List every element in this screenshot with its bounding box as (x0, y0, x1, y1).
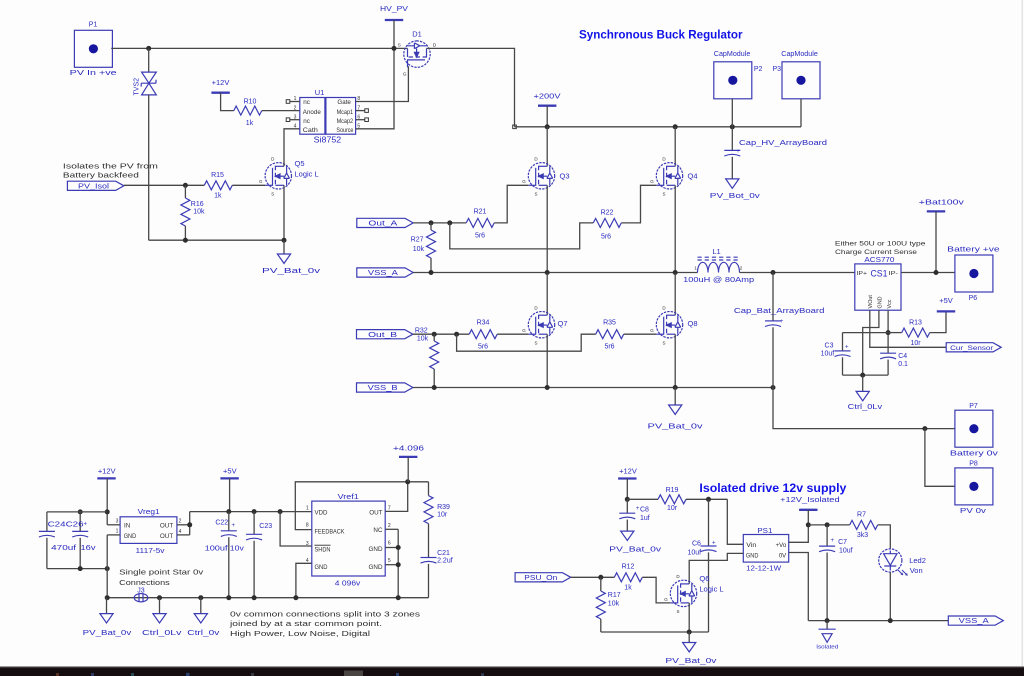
svg-text:3: 3 (116, 519, 119, 525)
pin 7 mcap1 U1 (356, 105, 369, 112)
svg-text:NC: NC (373, 527, 383, 534)
svg-text:S: S (662, 340, 665, 345)
node R32 top (432, 332, 437, 337)
svg-text:CapModule: CapModule (781, 51, 818, 58)
capacitor C22 (205, 512, 245, 598)
svg-text:1uf: 1uf (640, 515, 650, 522)
transistor Q4 (650, 157, 697, 197)
node R27 top (429, 220, 434, 225)
svg-text:+Bat100v: +Bat100v (919, 198, 964, 207)
node sensor ground (860, 373, 865, 378)
connector P1 (70, 21, 117, 77)
power +12V_Isolated (780, 497, 840, 510)
wire VSS_B (413, 387, 773, 389)
pin 5 source U1 (357, 124, 360, 130)
svg-text:VSS_A: VSS_A (959, 618, 989, 625)
svg-text:Vref1: Vref1 (338, 492, 359, 501)
svg-text:0.1: 0.1 (898, 361, 908, 368)
net label PSU_On (515, 573, 571, 582)
svg-text:Vreg1: Vreg1 (138, 507, 160, 516)
svg-text:P3: P3 (773, 66, 782, 73)
inductor L1 (683, 247, 754, 284)
svg-text:ViOut: ViOut (868, 295, 874, 309)
connector P6 Battery +ve (947, 246, 1000, 302)
svg-text:+12V_Isolated: +12V_Isolated (780, 497, 840, 504)
wire P3 drop (800, 99, 802, 127)
svg-text:10uf: 10uf (687, 550, 701, 557)
capacitor Cap_Bat_ArrayBoard (734, 273, 825, 388)
node +200V rail caps (730, 124, 735, 129)
transistor Q3 (522, 157, 569, 197)
svg-text:R27: R27 (411, 236, 424, 243)
svg-text:R17: R17 (608, 592, 621, 599)
svg-text:5r6: 5r6 (604, 343, 614, 350)
diode Led2 (879, 549, 926, 576)
svg-text:Mcap2: Mcap2 (337, 118, 354, 125)
power +12V bottom left (97, 466, 115, 478)
svg-text:OUT: OUT (160, 522, 173, 529)
svg-text:R13: R13 (909, 320, 922, 327)
svg-text:10uf: 10uf (839, 547, 853, 554)
svg-text:S: S (534, 340, 537, 345)
connector P7 Battery 0v (950, 403, 999, 458)
svg-text:2.2uf: 2.2uf (437, 558, 453, 565)
svg-text:2: 2 (294, 105, 297, 111)
svg-text:10r: 10r (437, 511, 448, 518)
svg-text:Isolated drive 12v supply: Isolated drive 12v supply (699, 483, 847, 495)
svg-text:CS1: CS1 (871, 269, 888, 279)
svg-text:P8: P8 (969, 460, 978, 467)
svg-text:+5V: +5V (939, 296, 953, 305)
svg-text:+: + (712, 541, 716, 547)
svg-text:+12V: +12V (212, 78, 230, 87)
node vref out (405, 479, 410, 484)
svg-text:PV In +ve: PV In +ve (70, 70, 117, 77)
node R16 top junction (183, 183, 188, 188)
wire gnd vertical to star (106, 535, 108, 598)
wire R13 to +5V (930, 311, 946, 332)
power +200V (534, 92, 561, 106)
wire CS1 to P6 (901, 272, 955, 274)
wire CS1 gnd pin (863, 310, 879, 375)
resistor R16 (181, 185, 205, 240)
svg-text:GND: GND (877, 296, 883, 308)
svg-text:+: + (736, 149, 740, 155)
svg-text:OUT: OUT (160, 533, 173, 540)
node star main (105, 595, 110, 600)
ground PV_Bat_0v under Q8 (648, 388, 704, 431)
wire Out_B to R34 (413, 333, 469, 335)
node VSS_B R32 (432, 385, 437, 390)
svg-text:16v: 16v (81, 545, 97, 552)
node star ctrl0lv (157, 595, 162, 600)
power +5V left (220, 466, 238, 478)
pin 3 nc U1 (286, 114, 300, 121)
node vo node (806, 522, 811, 527)
voltage regulator Vreg1 (116, 507, 182, 555)
svg-text:G: G (650, 328, 654, 333)
resistor R13 (888, 320, 930, 347)
wire feedback loop (295, 482, 428, 530)
wire ps1 gnd to q6 drain (689, 553, 743, 584)
wire Q4 source (674, 185, 676, 272)
svg-text:Q6: Q6 (699, 574, 709, 583)
svg-text:+4.096: +4.096 (393, 443, 424, 452)
wire +12V drop br (626, 479, 628, 500)
wire R19 out (686, 498, 727, 500)
svg-text:Isolated: Isolated (816, 645, 838, 651)
svg-text:HV_PV: HV_PV (380, 4, 408, 13)
svg-text:C22: C22 (215, 519, 228, 526)
comment text isolates (63, 164, 158, 180)
transistor Q7 (522, 306, 567, 346)
wire led to vss (889, 572, 891, 621)
svg-text:10k: 10k (608, 600, 620, 607)
svg-text:GND: GND (315, 564, 328, 571)
op-amp U1 Si8752 isolated gate driver (300, 88, 356, 145)
svg-text:G: G (403, 72, 407, 77)
svg-text:+Vo: +Vo (776, 543, 787, 549)
wire CS1 vcc pin (887, 310, 889, 353)
wire lower loop B to R35 (457, 334, 596, 351)
svg-text:+200V: +200V (534, 92, 561, 101)
wire PSU_On to R12 (571, 576, 615, 578)
capacitor C26 (72, 512, 88, 569)
svg-text:Ctrl_0v: Ctrl_0v (187, 630, 220, 637)
capacitor C4 (880, 353, 908, 375)
svg-text:G: G (522, 328, 526, 333)
node TVS junction (146, 46, 151, 51)
svg-text:5r6: 5r6 (478, 343, 488, 350)
svg-text:Single point Star 0v: Single point Star 0v (119, 567, 203, 576)
node VSS_B Q7 (545, 385, 550, 390)
svg-text:Von: Von (910, 566, 923, 575)
svg-text:R34: R34 (477, 320, 490, 327)
svg-text:470uf: 470uf (51, 545, 76, 552)
TVS diode TVS2 (134, 72, 157, 95)
ground Ctrl_0Lv star (142, 598, 182, 637)
net label Cur_Sensor (946, 343, 1001, 352)
capacitor C7 (819, 525, 853, 621)
wire TVS drop (148, 48, 150, 72)
node top rail C26 (78, 509, 83, 514)
svg-text:Ctrl_0Lv: Ctrl_0Lv (848, 404, 883, 411)
svg-text:Charge Current Sense: Charge Current Sense (835, 249, 917, 256)
wire cap branch to P7 line (773, 388, 955, 429)
svg-text:TVS2: TVS2 (134, 78, 141, 96)
svg-text:Logic L: Logic L (295, 169, 319, 178)
wire out pin to top (385, 482, 408, 512)
svg-text:Cap_HV_ArrayBoard: Cap_HV_ArrayBoard (739, 140, 827, 147)
svg-text:5r6: 5r6 (475, 232, 485, 239)
node VSS_A R27 (429, 270, 434, 275)
ground PV_Bat_0v q6 (665, 632, 717, 665)
svg-text:G: G (664, 597, 668, 602)
svg-text:Out_A: Out_A (368, 221, 397, 228)
node VSS_B cap branch (771, 385, 776, 390)
wire L1 to CS1 (740, 272, 855, 274)
ground PV_Bat_0v under Q5 (262, 240, 321, 275)
resistor R17 (596, 577, 620, 632)
svg-text:2: 2 (388, 523, 391, 529)
power +4.096 (393, 443, 424, 457)
wire Q6 source (688, 603, 690, 632)
svg-text:S: S (662, 191, 665, 196)
svg-text:IN: IN (124, 522, 131, 529)
power +5V right (937, 296, 955, 311)
wire +4.096 drop (407, 457, 409, 482)
svg-text:R35: R35 (603, 320, 616, 327)
wire TVS2 bottom to 0v rail (148, 95, 150, 240)
wire ps1 0v (789, 553, 809, 621)
svg-text:Synchronous Buck Regulator: Synchronous Buck Regulator (579, 30, 743, 42)
svg-text:10k: 10k (417, 335, 429, 342)
svg-text:Out_B: Out_B (368, 332, 397, 339)
svg-text:Si8752: Si8752 (314, 136, 342, 145)
svg-text:100uH @ 80Amp: 100uH @ 80Amp (683, 277, 754, 284)
resistor R12 (614, 563, 642, 591)
node vreg out (187, 522, 192, 527)
svg-text:Cath: Cath (303, 127, 319, 134)
svg-text:PV_Bat_0v: PV_Bat_0v (83, 630, 132, 637)
svg-text:U1: U1 (315, 88, 325, 97)
wire bottom cap rail (47, 568, 107, 570)
svg-text:Cur_Sensor: Cur_Sensor (950, 345, 994, 352)
svg-text:Vin: Vin (746, 543, 756, 549)
svg-text:1: 1 (694, 265, 697, 270)
node 5v rail shdn (278, 509, 283, 514)
wire shdn loop (280, 512, 312, 546)
svg-text:VDD: VDD (315, 509, 328, 516)
svg-text:C21: C21 (437, 550, 450, 557)
ground Ctrl_0Lv sensor (848, 375, 883, 411)
svg-text:2: 2 (179, 519, 182, 525)
svg-text:VSS_A: VSS_A (368, 270, 398, 277)
net label Out_B (357, 330, 413, 339)
svg-text:R15: R15 (211, 172, 224, 179)
net label VSS_B (357, 383, 413, 392)
svg-text:0v common connections split in: 0v common connections split into 3 zones (230, 610, 420, 619)
svg-text:Mcap1: Mcap1 (337, 109, 354, 116)
svg-text:GND: GND (369, 546, 383, 553)
svg-text:10r: 10r (667, 505, 678, 512)
pin 2 anode U1 (294, 105, 297, 111)
pin 6 mcap2 U1 (356, 114, 369, 121)
right edge line (1022, 0, 1023, 666)
svg-text:Cap_Bat_ArrayBoard: Cap_Bat_ArrayBoard (734, 308, 825, 315)
node +200V rail Q4 (673, 124, 678, 129)
ground PV_Bat_0v c8 (609, 531, 662, 553)
node P8 branch (922, 426, 927, 431)
connector P2 CapModule (714, 51, 763, 99)
svg-text:7: 7 (357, 105, 360, 111)
power supply PS1 isolated dcdc (743, 526, 788, 572)
svg-text:1k: 1k (214, 193, 222, 200)
svg-text:PV_Isol: PV_Isol (78, 183, 110, 190)
wire Q3 source (546, 185, 548, 272)
wire vref right gnd pins (385, 528, 398, 530)
wire +5V drop (229, 478, 231, 511)
svg-text:GND: GND (746, 554, 759, 560)
node r19 c8 (625, 497, 630, 502)
svg-text:joined by at a star common poi: joined by at a star common point. (229, 619, 382, 628)
node q6 source (687, 630, 692, 635)
svg-text:C8: C8 (640, 507, 649, 514)
svg-text:Battery backfeed: Battery backfeed (63, 172, 139, 179)
wire 0v rail bottom left (149, 239, 284, 241)
svg-text:PV_Bat_0v: PV_Bat_0v (262, 268, 321, 275)
wire lower loop A to R22 (450, 223, 594, 249)
svg-text:10uf: 10uf (821, 351, 835, 358)
wire R7 to led (878, 525, 891, 549)
svg-text:G: G (650, 179, 654, 184)
wire R15 to Q5 gate (232, 184, 265, 186)
svg-text:Battery 0v: Battery 0v (950, 450, 999, 457)
comment single point star (119, 567, 203, 587)
svg-text:Ctrl_0Lv: Ctrl_0Lv (142, 630, 182, 637)
resistor R27 (411, 223, 436, 273)
svg-text:Q4: Q4 (688, 172, 698, 181)
resistor R34 (469, 320, 497, 351)
node vcc r13 (886, 330, 891, 335)
voltage reference Vref1 (306, 492, 391, 588)
node 5v rail C22 (226, 509, 231, 514)
svg-text:L1: L1 (712, 247, 720, 256)
resistor R10 (234, 99, 262, 127)
svg-text:R19: R19 (666, 487, 679, 494)
connector P8 PV 0v (955, 460, 993, 515)
svg-text:Q3: Q3 (560, 172, 570, 181)
svg-text:Connections: Connections (119, 578, 170, 587)
wire isolated bar drop (807, 510, 809, 525)
wire PV_Isol to R15 (124, 184, 204, 186)
connector J3 star point (134, 587, 148, 602)
transistor Q5 (259, 157, 319, 197)
wire sensor ground rail (843, 374, 889, 376)
svg-text:D1: D1 (412, 30, 422, 39)
ground PV_Bat_0v star (83, 598, 132, 637)
svg-text:Source: Source (336, 127, 353, 134)
taskbar strip (0, 667, 1024, 676)
resistor R19 (627, 487, 686, 512)
wire vreg in stub (107, 524, 120, 526)
svg-text:R22: R22 (601, 209, 614, 216)
svg-text:Either 50U or 100U type: Either 50U or 100U type (835, 240, 926, 247)
node star ctrl0v (198, 595, 203, 600)
power HV_PV (380, 4, 408, 20)
wire +12V to R10 (221, 93, 234, 111)
node star c23 (252, 595, 257, 600)
svg-text:S: S (398, 42, 401, 47)
svg-text:P2: P2 (754, 66, 763, 73)
node 5v rail C23 (252, 509, 257, 514)
capacitor Cap_HV_ArrayBoard (724, 127, 827, 179)
svg-text:R12: R12 (622, 563, 635, 570)
resistor R21 (466, 209, 494, 240)
svg-text:4: 4 (179, 529, 182, 535)
svg-text:PV 0v: PV 0v (960, 508, 987, 515)
svg-text:PV_Bat_0v: PV_Bat_0v (648, 424, 704, 431)
svg-text:8: 8 (306, 522, 309, 528)
node VSS_B Q8 (673, 385, 678, 390)
svg-text:R21: R21 (474, 209, 487, 216)
power +12V bottom right (618, 466, 637, 478)
svg-text:S: S (271, 191, 274, 196)
svg-text:SHDN: SHDN (315, 547, 331, 554)
node c6 node (706, 497, 711, 502)
wire star rail (107, 597, 428, 599)
svg-text:S: S (534, 191, 537, 196)
svg-text:6: 6 (388, 540, 391, 546)
svg-text:+: + (232, 523, 236, 529)
svg-text:CapModule: CapModule (714, 51, 751, 58)
wire vreg gnd stub (107, 534, 120, 536)
wire +200V rail (515, 126, 802, 128)
net label VSS_A bottom (948, 616, 1003, 625)
capacitor C8 (619, 499, 649, 531)
node R16 bottom (183, 238, 188, 243)
wire top cap rail (47, 511, 107, 513)
capacitor C6 (687, 499, 716, 632)
svg-text:G: G (259, 179, 263, 184)
wire P8 branch (925, 429, 955, 487)
svg-text:+12V: +12V (98, 466, 116, 475)
wire Q3 drain (546, 127, 548, 167)
svg-text:VSS_B: VSS_B (368, 385, 398, 392)
node right gnd b (396, 562, 401, 567)
svg-text:G: G (522, 179, 526, 184)
svg-text:P1: P1 (89, 21, 98, 28)
capacitor C23 (246, 512, 272, 598)
svg-text:4 096v: 4 096v (335, 579, 361, 588)
transistor Q8 (650, 306, 697, 346)
wire VSS_A to L1 (413, 272, 697, 274)
svg-text:+: + (780, 319, 784, 325)
svg-text:C23: C23 (259, 523, 272, 530)
resistor R39 (424, 482, 450, 558)
node VSS_A Q4 (673, 270, 678, 275)
node right gnd a (396, 545, 401, 550)
svg-text:PS1: PS1 (757, 526, 772, 535)
svg-text:1k: 1k (624, 584, 632, 591)
comment zones text (229, 610, 421, 638)
wire R10 to U1 anode (262, 110, 300, 112)
node star right gnd (396, 595, 401, 600)
net label Out_A (357, 218, 413, 227)
wire R21 to Q3 gate (494, 185, 528, 223)
svg-text:P6: P6 (969, 295, 978, 302)
svg-text:Logic L: Logic L (699, 584, 723, 593)
svg-text:IP-: IP- (889, 271, 899, 277)
wire vin riser (727, 499, 743, 544)
svg-text:C3: C3 (825, 342, 834, 349)
net label PV_Isol (67, 181, 124, 190)
resistor R32 (415, 328, 439, 388)
wire Q8 drain (674, 273, 676, 316)
node Q5 source junction (282, 238, 287, 243)
node battery node (934, 270, 939, 275)
svg-text:10k: 10k (193, 209, 205, 216)
wire D1 drain to rail corner (427, 48, 515, 126)
wire Q7 source (546, 334, 548, 387)
svg-text:100uf: 100uf (205, 545, 228, 552)
transistor Q6 (664, 574, 723, 614)
node bottom rail C26 (78, 566, 83, 571)
net label VSS_A (357, 268, 413, 277)
node led bottom (888, 618, 893, 623)
svg-text:3: 3 (294, 114, 297, 120)
svg-text:Q8: Q8 (688, 319, 698, 328)
